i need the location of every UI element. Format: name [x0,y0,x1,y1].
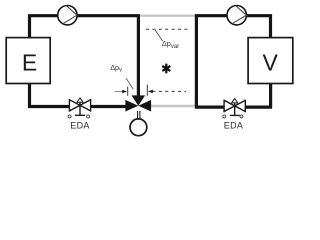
svg-text:EDA: EDA [224,121,243,131]
3-way valve V3 right triangle [138,100,151,112]
valve EDA2 bowtie body [224,100,245,111]
dimension witness line right of valve [146,85,148,96]
label dp_v leader line [126,78,133,89]
pump P2 (circle with triangle chords) [227,6,246,25]
dimension arrow right (pointing left) [148,90,153,94]
dimension arrow left (pointing right) [115,91,123,93]
valve EDA2 stem and foot bar [230,103,240,116]
3-way valve actuator stem (double line) [138,111,140,119]
wire gray top segment between risers [139,14,196,16]
valve EDA1 measuring port left [68,115,71,118]
valve EDA2 top triangle handle [232,99,238,103]
valve EDA1 top triangle handle [77,98,83,102]
dashed line right of arrow [153,90,187,92]
wire top-left run: E box top riser, top pipe to left riser, down to 3-way valve [30,16,139,97]
svg-text:V: V [263,49,279,75]
valve EDA2 measuring port right [240,115,243,118]
wire top-right run: right riser corner, top pipe, V box top riser [196,16,270,105]
valve EDA1 measuring port right [87,115,90,118]
wire bottom-right run: right riser corner to right EDA valve [196,104,224,108]
dimension witness line left of valve [127,87,129,96]
pump P1 (circle with triangle chords) [58,6,77,25]
wire bottom-left run: E box bottom riser, bottom pipe to left EDA valve [30,83,70,107]
wire between left EDA valve and 3-way valve [91,105,127,108]
svg-text:EDA: EDA [70,121,89,131]
valve EDA1 bowtie body [69,100,90,111]
wire from right EDA valve to V box bottom riser [245,83,272,108]
valve EDA1 stem and foot bar [75,102,85,115]
svg-text:E: E [22,49,37,75]
label dp_var leader line [155,30,163,42]
label asterisk [162,64,170,74]
box V [248,38,293,84]
valve EDA2 measuring port left [223,115,226,118]
wire gray bottom segment between 3-way valve and right riser [146,105,195,107]
3-way valve actuator circle [130,119,147,136]
dashed line dp_var (top) [146,28,189,30]
3-way valve V3 top triangle [132,95,146,105]
3-way valve V3 left triangle [125,100,138,112]
box E [6,38,50,84]
